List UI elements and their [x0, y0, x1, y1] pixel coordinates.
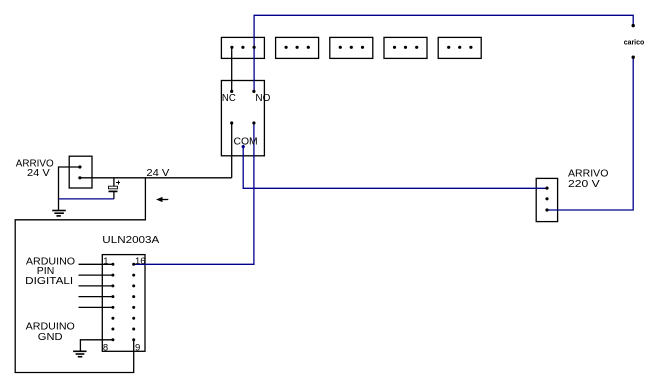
svg-text:1: 1: [103, 256, 108, 267]
svg-text:NC: NC: [222, 92, 236, 104]
svg-text:9: 9: [135, 342, 140, 353]
svg-text:220 V: 220 V: [568, 178, 600, 190]
svg-text:GND: GND: [38, 331, 63, 343]
svg-text:carico: carico: [624, 37, 645, 46]
svg-text:ULN2003A: ULN2003A: [102, 234, 159, 246]
svg-text:DIGITALI: DIGITALI: [25, 275, 73, 287]
svg-text:16: 16: [135, 256, 146, 267]
svg-text:8: 8: [103, 342, 108, 353]
svg-text:NO: NO: [255, 92, 270, 104]
svg-text:COM: COM: [234, 135, 258, 147]
svg-text:24 V: 24 V: [146, 167, 169, 179]
svg-text:24 V: 24 V: [27, 167, 50, 179]
